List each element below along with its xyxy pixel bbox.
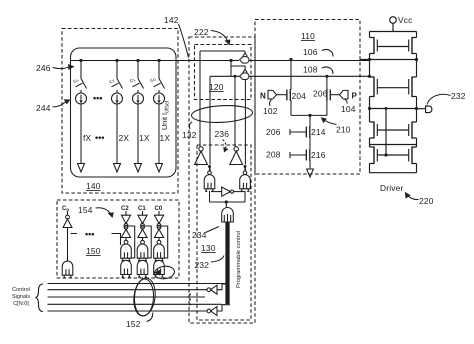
svg-text:C1: C1 [138, 206, 146, 212]
svg-text:142: 142 [164, 15, 179, 25]
svg-text:Control: Control [12, 287, 30, 293]
svg-text:106: 106 [303, 47, 318, 57]
svg-text:C0: C0 [155, 206, 163, 212]
svg-text:232: 232 [451, 91, 466, 101]
svg-text:Unit Ioffset: Unit Ioffset [160, 100, 171, 130]
svg-text:246: 246 [36, 63, 51, 73]
svg-text:220: 220 [419, 196, 434, 206]
svg-text:102: 102 [263, 106, 278, 116]
svg-text:232: 232 [195, 260, 210, 270]
svg-text:152: 152 [126, 319, 141, 329]
svg-text:244: 244 [36, 103, 51, 113]
svg-text:Programmable control: Programmable control [236, 231, 242, 288]
svg-text:N: N [260, 92, 266, 101]
svg-text:108: 108 [303, 65, 318, 75]
svg-text:•••: ••• [95, 133, 104, 143]
svg-text:c2: c2 [108, 77, 116, 85]
svg-text:154: 154 [78, 205, 93, 215]
svg-text:214: 214 [311, 127, 326, 137]
svg-text:150: 150 [86, 246, 101, 256]
svg-text:204: 204 [292, 91, 307, 101]
svg-text:110: 110 [301, 31, 315, 41]
svg-text:c0: c0 [149, 76, 157, 84]
svg-text:C[N:0]: C[N:0] [13, 301, 29, 307]
svg-text:•••: ••• [85, 229, 94, 239]
svg-text:1X: 1X [160, 133, 171, 143]
svg-text:210: 210 [336, 125, 351, 135]
svg-text:P: P [352, 92, 358, 101]
svg-text:c1: c1 [129, 76, 137, 84]
svg-text:222: 222 [194, 27, 209, 37]
svg-text:140: 140 [86, 181, 101, 191]
svg-text:Driver: Driver [380, 183, 404, 193]
svg-text:Signals: Signals [12, 294, 30, 300]
svg-text:•••: ••• [93, 93, 102, 103]
svg-text:120: 120 [209, 82, 224, 92]
svg-text:216: 216 [311, 150, 326, 160]
svg-text:Cn: Cn [62, 206, 69, 212]
svg-text:C2: C2 [121, 206, 129, 212]
svg-text:fX: fX [83, 133, 92, 143]
svg-text:Vcc: Vcc [398, 15, 413, 25]
svg-text:206: 206 [266, 127, 281, 137]
svg-text:208: 208 [266, 150, 281, 160]
svg-text:236: 236 [215, 129, 230, 139]
svg-text:1X: 1X [139, 133, 150, 143]
svg-text:132: 132 [182, 130, 197, 140]
svg-text:104: 104 [341, 104, 356, 114]
svg-text:206: 206 [313, 89, 328, 99]
svg-text:cn: cn [72, 77, 80, 85]
svg-text:130: 130 [201, 243, 216, 253]
svg-text:234: 234 [192, 230, 207, 240]
svg-text:2X: 2X [119, 133, 130, 143]
